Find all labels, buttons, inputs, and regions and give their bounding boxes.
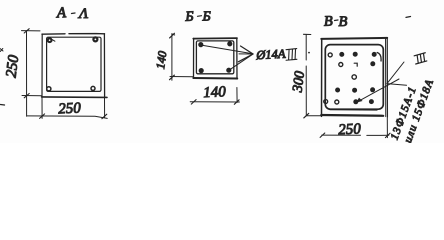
stirrup V bottom reinforcement line <box>330 109 377 111</box>
dim B bottom tick <box>170 75 175 80</box>
dim V dot <box>308 52 310 54</box>
callout arrow mid line <box>239 53 252 55</box>
dim B top arrow mark <box>172 34 175 35</box>
dim A bottom tick right <box>102 114 107 119</box>
dim V bottom line <box>322 134 389 136</box>
dim V bottom extension <box>306 115 321 117</box>
dim A top tick <box>24 29 29 33</box>
column B outline <box>193 37 237 40</box>
rebar V r4c4 <box>369 100 373 104</box>
svg-text:140: 140 <box>203 84 227 101</box>
stirrup hook top-right <box>377 53 381 62</box>
callout class III symbol <box>286 49 298 61</box>
dim B bottom right extension <box>236 88 238 103</box>
svg-text:Б: Б <box>202 9 211 24</box>
rebar V r1c3 <box>353 52 357 56</box>
svg-text:140: 140 <box>153 50 169 70</box>
rebar B bottom-left <box>199 69 203 73</box>
leader to stirrup upper <box>387 62 404 84</box>
rebar A bottom-left <box>47 87 51 91</box>
dim B top tick <box>170 33 175 38</box>
annotation class III symbol <box>414 53 428 64</box>
rebar V r3c1 <box>336 88 340 92</box>
svg-text:Ø14А: Ø14А <box>255 47 286 63</box>
dim B bottom line <box>190 101 239 103</box>
rebar V r4c2 <box>335 100 339 104</box>
rebar B top-left <box>199 43 203 47</box>
dim A vertical line <box>26 31 28 116</box>
rebar V r3c3 <box>371 88 375 92</box>
svg-text:Б: Б <box>184 10 194 25</box>
rebar V r1c1 <box>328 53 332 57</box>
dim A bottom line <box>27 116 107 119</box>
dim V bottom tick <box>304 113 309 118</box>
rebar B top-right <box>228 42 232 46</box>
dim B bottom tick right <box>234 100 239 105</box>
dim V top extension <box>304 33 311 35</box>
stirrup B <box>196 41 233 74</box>
stray dash top right <box>406 16 411 19</box>
leader to rebar with arrow <box>360 79 400 101</box>
svg-text:В: В <box>324 13 334 29</box>
column A outline <box>42 33 105 36</box>
rebar B bottom-right <box>227 68 231 72</box>
dim V vertical line <box>305 35 307 116</box>
rebar V r1c4 <box>372 52 376 56</box>
title dash <box>72 12 76 15</box>
dim B vertical line <box>171 34 173 81</box>
rebar V mid circle <box>352 75 356 79</box>
leader from bottom-right rebar <box>230 54 253 70</box>
dim A bottom right extension <box>104 97 106 117</box>
callout arrow <box>238 46 253 62</box>
svg-text:А: А <box>56 5 68 21</box>
leader from top-left rebar <box>202 45 253 53</box>
dim B bottom tick left <box>191 100 196 105</box>
column V outline <box>321 38 387 39</box>
stirrup A <box>47 37 101 91</box>
svg-text:Λ: Λ <box>77 6 88 22</box>
dim A bottom extension <box>22 95 42 97</box>
dim A bottom left extension <box>41 97 43 118</box>
rebar V r2c1 <box>339 63 343 67</box>
left margin speck upper <box>0 49 3 52</box>
rebar A top-right <box>93 37 97 41</box>
dim A top extension <box>22 30 41 32</box>
rebar V r2c3 <box>371 62 375 66</box>
rebar V r3c2 <box>353 88 357 92</box>
svg-text:В: В <box>339 14 348 30</box>
rebar V r2c2 <box>354 63 357 66</box>
dim V bottom right extension <box>386 117 388 137</box>
stirrup V <box>325 45 383 110</box>
leader to stirrup lower <box>387 84 407 86</box>
rebar V r4c3 <box>354 100 358 104</box>
callout dot <box>284 56 286 58</box>
dim B bottom extension <box>170 76 193 78</box>
svg-text:300: 300 <box>290 70 308 94</box>
svg-text:250: 250 <box>58 100 82 117</box>
rebar V r1c2 <box>340 52 344 56</box>
rebar V r4c1 edge <box>324 100 328 104</box>
left margin speck lower <box>1 104 5 107</box>
rebar A bottom-right <box>91 86 95 90</box>
dim V bottom tick left <box>320 133 325 137</box>
svg-text:250: 250 <box>4 54 23 79</box>
rebar A top-left <box>48 38 52 42</box>
dim A bottom tick <box>24 94 29 98</box>
dim V bottom tick right <box>385 133 390 137</box>
dim A bottom tick left <box>40 114 45 119</box>
svg-text:250: 250 <box>338 121 362 138</box>
